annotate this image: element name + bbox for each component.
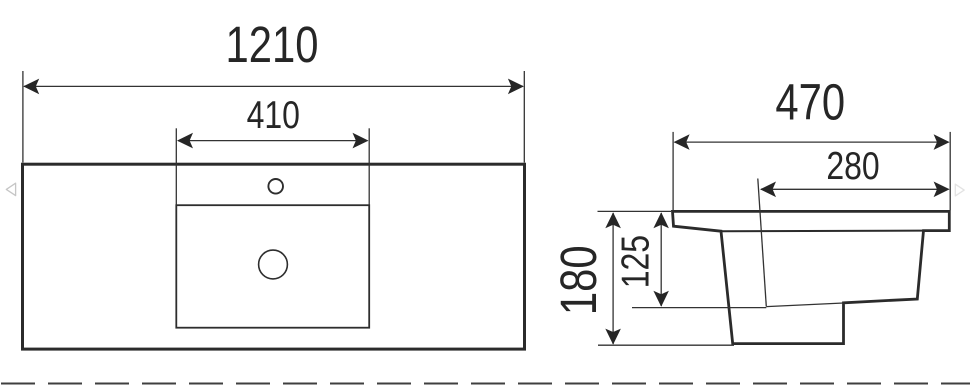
inner bowl bottom <box>766 303 843 307</box>
svg-text:1210: 1210 <box>225 16 318 73</box>
extension line 470 right <box>949 132 951 210</box>
dimension line 410 <box>178 140 368 142</box>
extension line 1210 left <box>22 71 24 163</box>
dimension line 280 <box>761 188 949 190</box>
svg-text:410: 410 <box>247 93 300 137</box>
carousel prev arrow (left edge) <box>6 183 15 195</box>
extension line 1210 right <box>523 71 525 163</box>
dimension line 1210 <box>24 85 523 87</box>
svg-text:180: 180 <box>550 245 607 315</box>
dimension line 180 <box>612 213 614 344</box>
faucet hole <box>268 179 283 194</box>
label 125 (rotated) <box>614 235 658 288</box>
cropped dashed rule at bottom <box>1 383 970 385</box>
extension line 125 bottom <box>632 307 766 309</box>
extension line 410 right <box>368 128 370 205</box>
svg-text:470: 470 <box>775 74 845 131</box>
carousel next arrow (right edge) <box>955 184 964 196</box>
dimension line 470 <box>675 141 949 143</box>
extension line 410 left <box>175 128 177 205</box>
slab underside edge <box>721 230 924 233</box>
label 180 (rotated) <box>550 245 607 315</box>
basin side-profile outline <box>673 211 950 343</box>
svg-text:280: 280 <box>826 144 879 188</box>
basin bowl rectangle (top view) <box>176 205 369 328</box>
extension line 180 top <box>598 210 672 212</box>
drain hole <box>259 250 288 279</box>
extension line 470 left <box>672 132 674 210</box>
countertop outline (top view) <box>23 164 525 349</box>
extension line 180 bottom <box>598 344 734 346</box>
svg-text:125: 125 <box>614 235 658 288</box>
dimension line 125 <box>660 213 662 306</box>
inner bowl wall (left, also 280 extension) <box>758 179 767 307</box>
